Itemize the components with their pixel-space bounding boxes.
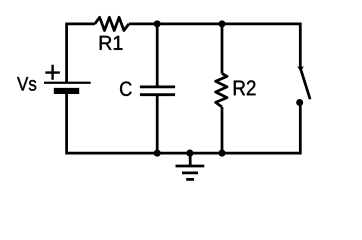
wire: R2 top stub: [221, 24, 224, 74]
node: R2 bottom junction: [218, 150, 225, 157]
node: R2 top junction: [218, 20, 225, 27]
capacitor C: [140, 87, 175, 95]
resistor R1: [95, 17, 129, 30]
label R2: [234, 80, 256, 95]
node: R1/C top junction: [154, 20, 161, 27]
wire: top segment + right vertical: [129, 24, 300, 69]
label Vs: [17, 77, 36, 91]
label C: [120, 82, 132, 97]
node: ground junction: [186, 150, 193, 157]
wire: left vertical + top-left segment: [67, 24, 95, 82]
wire: capacitor top stub: [156, 24, 159, 87]
switch S1: [296, 67, 310, 106]
ground: [176, 153, 205, 179]
node: C bottom junction: [154, 150, 161, 157]
wire: R2 bottom stub: [221, 107, 224, 153]
wire: capacitor bottom stub: [156, 95, 159, 153]
wire: right vertical bottom + bottom wire + left vertical bottom: [67, 91, 301, 153]
resistor R2: [216, 73, 227, 107]
battery Vs: [44, 65, 91, 91]
label R1: [100, 36, 123, 50]
